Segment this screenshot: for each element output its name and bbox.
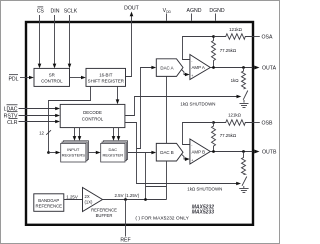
svg-text:+: + (191, 74, 193, 78)
resistor 121k A (to OSA) (214, 27, 253, 39)
node OUTB branch (242, 150, 245, 153)
pin DIN label (51, 9, 60, 15)
wire stub near rail (146, 186, 167, 188)
wire AMP A feedback to top node (183, 37, 214, 60)
svg-text:AGND: AGND (187, 8, 202, 14)
resistor 77.25k A (vertical) (212, 37, 237, 68)
svg-text:DECODE: DECODE (83, 110, 102, 115)
pin RSTV label (4, 112, 18, 120)
switch A (243, 91, 248, 100)
svg-text:REGISTERS: REGISTERS (62, 153, 86, 158)
svg-text:(1X): (1X) (85, 199, 94, 204)
wire DGND stub (215, 14, 217, 21)
wire CS to SR CONTROL (38, 15, 42, 68)
svg-text:1kΩ: 1kΩ (231, 78, 240, 83)
wire shutdown A from decode (125, 95, 241, 116)
op-amp AMP B (190, 139, 210, 164)
node AMP B output (212, 150, 215, 153)
node feedback top B (212, 121, 215, 124)
svg-text:12: 12 (39, 130, 44, 135)
part number MAX5232 MAX5233 (192, 205, 214, 216)
svg-text:DAC: DAC (109, 147, 118, 152)
svg-text:REFERENCE: REFERENCE (91, 207, 117, 212)
svg-text:DGND: DGND (209, 8, 225, 14)
wire bus arrow into input registers (49, 151, 61, 155)
box BANDGAP REFERENCE (34, 194, 64, 212)
svg-text:CONTROL: CONTROL (82, 117, 104, 122)
wire CLR to decode (19, 120, 61, 124)
ground A (240, 100, 249, 108)
wire decode to DAC register arrow 2 (117, 128, 121, 141)
wire data branch up to DAC A (137, 66, 157, 149)
wire LDAC to decode (19, 107, 61, 111)
svg-text:AMP A: AMP A (192, 65, 205, 70)
node REF tap (124, 198, 127, 201)
wire AMP B output rail (210, 151, 252, 153)
svg-text:1kΩ SHUTDOWN: 1kΩ SHUTDOWN (187, 186, 222, 191)
register INPUT REGISTERS (stacked) (61, 141, 89, 162)
svg-text:SR: SR (49, 73, 55, 78)
pin CLR label (7, 118, 18, 126)
svg-text:MAX5233: MAX5233 (192, 210, 214, 216)
pin PDL label (8, 75, 18, 83)
wire RSTV to decode (19, 114, 61, 118)
svg-text:SHIFT REGISTER: SHIFT REGISTER (88, 78, 124, 83)
wire shutdown B from decode (125, 123, 241, 186)
wire AMP A output rail (210, 67, 252, 69)
svg-text:OSA: OSA (262, 34, 273, 40)
register DAC REGISTER (stacked) (101, 141, 128, 162)
svg-text:( ) FOR MAX5232 ONLY: ( ) FOR MAX5232 ONLY (135, 215, 189, 221)
svg-text:REGISTER: REGISTER (102, 153, 123, 158)
resistor 77.25k B (vertical) (212, 123, 237, 152)
resistor 121k B (to OSB) (214, 112, 253, 125)
svg-text:OUTB: OUTB (262, 149, 277, 155)
wire DAC A output to AMP A (182, 70, 190, 77)
node AMP A output (212, 66, 215, 69)
svg-text:16-BIT: 16-BIT (99, 73, 112, 78)
box 16-BIT SHIFT REGISTER (86, 68, 126, 86)
ground B (239, 186, 248, 193)
pin AGND label (187, 8, 202, 14)
bus width slash and label 12 (39, 130, 51, 135)
amp REFERENCE BUFFER (83, 188, 118, 219)
wire 12-bit bus (49, 86, 91, 152)
wire decode to input registers arrow 2 (78, 128, 82, 141)
pin VDD label (163, 8, 172, 14)
wire AGND stub (191, 14, 193, 21)
wire decode to DAC register arrow 1 (112, 128, 116, 141)
svg-text:1kΩ SHUTDOWN: 1kΩ SHUTDOWN (180, 101, 215, 106)
box DECODE CONTROL (60, 104, 125, 127)
node ref branch (144, 198, 147, 201)
wire input registers to DAC register (89, 151, 101, 155)
svg-text:CONTROL: CONTROL (41, 78, 63, 83)
svg-text:BANDGAP: BANDGAP (38, 198, 59, 203)
svg-text:77.25kΩ: 77.25kΩ (220, 133, 237, 138)
wire reference pass-through DAC A to DAC B (166, 76, 168, 143)
svg-text:OSB: OSB (262, 120, 273, 126)
wire AMP B feedback to top node (183, 123, 214, 145)
svg-text:INPUT: INPUT (67, 147, 80, 152)
pin DGND label (209, 8, 225, 14)
pin CS label (37, 7, 45, 15)
box SR CONTROL (34, 68, 70, 86)
wire DOUT from shift register (126, 12, 134, 77)
wire OSB outside (253, 122, 260, 124)
resistor 1k A (vertical) (231, 68, 246, 90)
pin LDAC label (4, 105, 18, 113)
wire SCLK to SR CONTROL (68, 15, 72, 68)
svg-text:77.25kΩ: 77.25kΩ (220, 48, 237, 53)
svg-text:2.5V (1.25V): 2.5V (1.25V) (115, 193, 140, 198)
svg-text:OUTA: OUTA (262, 65, 277, 71)
wire DAC B output to AMP B (182, 154, 190, 161)
svg-text:DOUT: DOUT (124, 6, 140, 12)
wire DAC register to DAC B (128, 151, 157, 155)
node feedback top A (212, 35, 215, 38)
node OUTA branch (242, 66, 245, 69)
pin SCLK label (64, 9, 78, 15)
pin OUTA arrow and label (254, 65, 276, 71)
wire VDD stub (166, 14, 168, 21)
svg-text:DAC B: DAC B (160, 150, 173, 155)
wire PDL to SR CONTROL (20, 76, 34, 80)
wire OSA outside (253, 36, 260, 38)
DAC A pentagon (156, 59, 183, 77)
wire reference DAC B to 2.5V rail (166, 161, 168, 200)
svg-text:121kΩ: 121kΩ (229, 27, 243, 32)
wire REF pin (125, 200, 127, 237)
pin OUTB arrow and label (254, 149, 277, 155)
wire shift register to decode control (116, 86, 120, 104)
op-amp AMP A (190, 55, 210, 80)
wire DIN to SR CONTROL (53, 15, 57, 68)
svg-text:+: + (191, 159, 193, 163)
IC boundary thick box (26, 22, 253, 225)
svg-text:SCLK: SCLK (64, 9, 78, 15)
pin DOUT label (124, 6, 140, 12)
svg-text:CLR: CLR (7, 120, 18, 126)
DAC B pentagon (156, 143, 183, 161)
svg-text:PDL: PDL (8, 77, 18, 83)
wire decode to input registers arrow 1 (73, 128, 77, 141)
svg-text:REFERENCE: REFERENCE (36, 204, 63, 209)
svg-text:REF: REF (120, 238, 130, 244)
svg-text:DIN: DIN (51, 9, 60, 15)
svg-text:DAC A: DAC A (160, 65, 173, 70)
wire 2.5V reference rail (103, 193, 167, 200)
svg-text:121kΩ: 121kΩ (228, 112, 242, 117)
svg-text:CS: CS (37, 9, 45, 15)
switch B (242, 177, 247, 186)
node bus junction (47, 151, 50, 154)
wire SR CONTROL to shift register (70, 76, 86, 80)
resistor 1k B (vertical) (242, 152, 246, 175)
svg-text:BUFFER: BUFFER (96, 213, 113, 218)
wire bandgap to buffer (64, 194, 83, 199)
wire reference riser (145, 153, 147, 200)
svg-text:1.25V: 1.25V (66, 194, 78, 199)
svg-text:AMP B: AMP B (192, 149, 206, 154)
